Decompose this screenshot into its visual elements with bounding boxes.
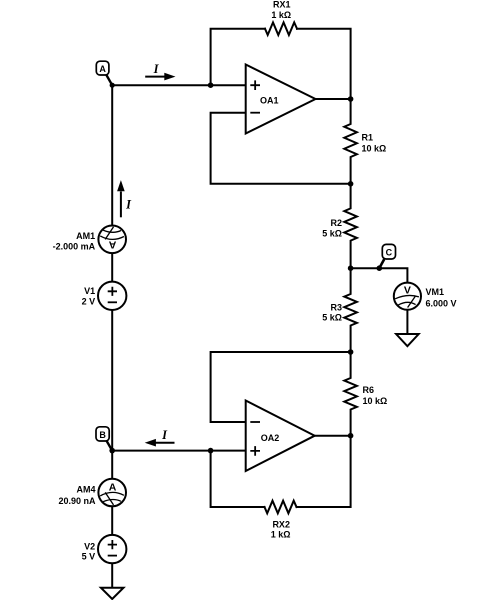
svg-text:A: A: [109, 239, 117, 251]
svg-text:2 V: 2 V: [82, 296, 96, 306]
label R1 10 kOhm: [362, 132, 387, 153]
wire node B to OA2 noninverting input: [112, 450, 246, 452]
resistor R2: [344, 184, 357, 268]
node C: [377, 244, 396, 271]
resistor R1: [344, 99, 357, 184]
svg-text:OA2: OA2: [261, 433, 280, 443]
resistor R3: [344, 268, 357, 352]
svg-text:V1: V1: [84, 286, 95, 296]
junction node B: [109, 448, 115, 454]
wire RX1 right down to OA1 output: [297, 29, 351, 99]
junction R1 bottom feedback: [348, 181, 354, 187]
wire left rail node A to AM1: [111, 85, 113, 225]
wire OA1 output: [316, 98, 351, 100]
wire node A to OA1 noninverting input: [112, 84, 246, 86]
wire AM1 to V1: [111, 253, 113, 282]
svg-text:AM1: AM1: [76, 231, 95, 241]
svg-text:OA1: OA1: [260, 96, 279, 106]
junction node C rail: [348, 265, 354, 271]
label RX1 1 kOhm: [271, 0, 291, 20]
svg-text:AM4: AM4: [76, 485, 95, 495]
wire node C branch to VM1: [351, 268, 408, 282]
node B: [96, 427, 112, 451]
voltage source V2: [98, 535, 126, 563]
svg-text:A: A: [99, 64, 106, 74]
wire right rail OA2 output down to RX2: [297, 436, 351, 507]
svg-text:5 kΩ: 5 kΩ: [322, 313, 342, 323]
label RX2 1 kOhm: [271, 519, 291, 539]
svg-text:-2.000 mA: -2.000 mA: [53, 242, 96, 252]
wire VM1 to ground: [406, 310, 408, 334]
svg-text:B: B: [99, 430, 106, 440]
junction OA1 output: [348, 96, 354, 102]
svg-text:20.90 nA: 20.90 nA: [58, 496, 96, 506]
svg-text:6.000 V: 6.000 V: [426, 298, 457, 308]
svg-text:VM1: VM1: [426, 287, 445, 297]
svg-text:RX1: RX1: [273, 0, 291, 10]
ground below VM1: [396, 334, 419, 346]
wire OA2 top feedback loop: [211, 352, 351, 422]
svg-text:10 kΩ: 10 kΩ: [362, 143, 387, 153]
op-amp OA1: [246, 65, 316, 134]
label R3 5 kOhm: [322, 302, 342, 322]
svg-text:R3: R3: [330, 302, 342, 312]
label R2 5 kOhm: [322, 218, 342, 238]
svg-text:R6: R6: [363, 385, 375, 395]
wire node B to AM4: [111, 451, 113, 479]
label AM1 -2.000 mA: [53, 231, 96, 251]
svg-text:C: C: [386, 248, 393, 258]
svg-text:A: A: [109, 481, 117, 493]
svg-text:5 V: 5 V: [82, 552, 96, 562]
label V1 2 V: [82, 286, 96, 306]
resistor RX2: [265, 501, 297, 514]
svg-text:V2: V2: [84, 541, 95, 551]
current arrow I at node A: [145, 62, 175, 80]
svg-text:1 kΩ: 1 kΩ: [271, 10, 291, 20]
wire AM4 to V2: [111, 506, 113, 535]
svg-text:RX2: RX2: [272, 519, 290, 529]
junction OA1 + input: [208, 82, 214, 88]
current arrow I at node B: [145, 428, 175, 446]
voltmeter VM1: [394, 283, 421, 310]
label AM4 20.90 nA: [58, 485, 96, 506]
svg-text:R1: R1: [362, 132, 374, 142]
op-amp OA2: [246, 401, 315, 472]
junction OA2 output: [348, 433, 354, 439]
wire OA1 + junction up to RX1 left: [211, 29, 265, 85]
svg-text:V: V: [404, 284, 411, 296]
junction OA2 + input: [208, 448, 214, 454]
wire OA2 output: [315, 435, 351, 437]
ground below V2: [101, 588, 124, 599]
node A: [96, 61, 114, 88]
label R6 10 kOhm: [363, 385, 388, 406]
wire RX2 left up to OA2 noninverting junction: [211, 451, 265, 507]
svg-text:1 kΩ: 1 kΩ: [271, 530, 291, 540]
svg-text:10 kΩ: 10 kΩ: [363, 396, 388, 406]
wire V2 to ground: [111, 563, 113, 587]
voltage source V1: [98, 282, 126, 310]
ammeter AM1: [98, 226, 126, 254]
wire OA1 inverting input feedback loop: [211, 113, 351, 184]
junction R3 R6 OA2 loop: [348, 349, 354, 355]
resistor RX1: [265, 22, 297, 35]
current arrow I left rail: [117, 180, 132, 217]
wire V1 to node B: [111, 310, 113, 451]
resistor R6: [344, 352, 357, 436]
svg-text:R2: R2: [330, 218, 342, 228]
ammeter AM4: [98, 479, 126, 507]
svg-text:5 kΩ: 5 kΩ: [322, 228, 342, 238]
label V2 5 V: [82, 541, 96, 561]
label VM1 6.000 V: [426, 287, 457, 308]
